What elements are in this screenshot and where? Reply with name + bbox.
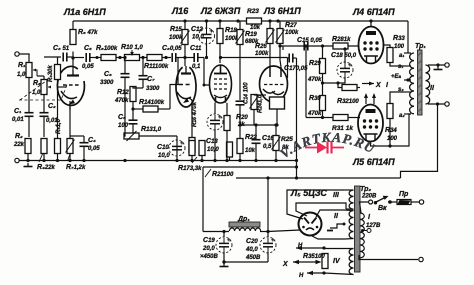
resistor R15 100k [181,30,190,45]
wire H bottom [307,272,324,274]
svg-text:C18 50,0: C18 50,0 [331,52,357,59]
svg-text:10,0: 10,0 [207,147,219,153]
svg-text:3300: 3300 [100,80,114,86]
wire 220V tap to switch [360,202,369,213]
svg-text:R21100: R21100 [212,171,234,178]
resistor R35 100 [322,254,328,269]
resistor R34 100 [387,104,393,119]
tube L2 6Zh3P [210,65,232,103]
capacitor C19 20.0 [216,237,232,253]
svg-text:C₉: C₉ [118,114,126,121]
resistor R33 100 [387,48,393,63]
svg-text:C₇: C₇ [147,76,155,83]
svg-text:470k: 470k [307,77,322,83]
resistor R26 100k [266,29,275,44]
svg-text:3300: 3300 [146,86,160,92]
svg-text:C₁: C₁ [14,108,22,115]
svg-text:Вк: Вк [378,205,387,212]
svg-text:10k: 10k [250,25,261,31]
terminal mains bottom [419,257,423,261]
svg-text:R16 470k: R16 470k [192,101,198,127]
heater tap symbol [327,224,344,231]
cathode resistor R24 1.0 [250,95,259,110]
svg-text:C12: C12 [191,26,203,33]
resistor R4 22k [41,139,47,154]
svg-text:127В: 127В [366,223,381,229]
svg-text:C11: C11 [190,45,202,52]
svg-text:1,0: 1,0 [32,90,41,96]
svg-text:R18: R18 [225,27,237,34]
capacitor C4 0.05 [80,143,89,147]
svg-text:R10 1,0: R10 1,0 [121,44,143,51]
wire R1 top [28,54,30,63]
wire signal row [73,57,84,59]
resistor R6 47k [70,30,76,45]
wire rectifier anode loop [287,190,346,239]
wire R14 to grid [170,85,179,110]
capacitor C15 0.05 [304,42,308,51]
svg-text:Тр₂: Тр₂ [360,186,371,193]
svg-text:a₁: a₁ [399,53,404,59]
resistor R30 470k [320,96,326,111]
tap 127V terminal [367,229,371,233]
resistor R19 680k [236,30,245,45]
svg-text:C₅: C₅ [84,45,92,52]
capacitor C1 0.01 [25,113,34,117]
svg-text:C15 0,05: C15 0,05 [297,37,323,44]
transformer Tr1 secondary coil [426,65,430,104]
svg-text:Л4 6П14П: Л4 6П14П [352,7,395,17]
svg-text:1,0: 1,0 [17,72,26,78]
wire B+ bus [73,20,408,22]
svg-text:R33: R33 [393,35,405,42]
svg-text:22k: 22k [13,142,25,148]
resistor R9 100k [101,55,116,61]
svg-text:Л3 6Н1П: Л3 6Н1П [263,6,301,16]
potentiometer R25 8k [272,136,281,151]
svg-text:R30: R30 [309,95,321,102]
grid wire L1a [58,86,67,88]
transformer Tr1 primary coil [410,53,414,114]
svg-text:450В: 450В [245,255,261,261]
svg-text:R131,0: R131,0 [141,126,162,133]
svg-text:R27: R27 [285,22,297,29]
cathode resistor R16 470k [189,138,195,153]
capacitor C20 40.0 [260,237,276,253]
svg-text:Л1а 6Н1П: Л1а 6Н1П [63,7,106,17]
capacitor C9 100 [129,120,138,124]
wire C18 to divider [323,77,346,83]
capacitor C16 0.5 [252,140,261,144]
capacitor C10 electrolytic [169,140,185,156]
svg-text:R₄22k: R₄22k [37,164,56,171]
svg-text:C₄: C₄ [88,137,96,144]
wire mains bottom [359,255,418,260]
resistor R23 10k (series in bus) [247,18,262,24]
svg-text:100: 100 [394,44,405,50]
svg-text:R₁: R₁ [18,62,26,69]
svg-text:R23: R23 [247,8,259,15]
resistor R11 100k [147,55,162,61]
capacitor C7 3300 [139,76,148,80]
svg-text:C13: C13 [206,138,218,145]
resistor R22 10k [237,139,243,154]
wire secondary bottom to terminal [428,103,445,105]
svg-text:R₂: R₂ [15,133,23,140]
svg-text:R₅30k: R₅30k [48,65,54,82]
watermark red diode [305,142,344,154]
svg-text:C₆: C₆ [104,71,112,78]
capacitor C18 50.0 electrolytic [337,62,353,78]
resistor R2 22k [25,139,31,154]
tube L5 rectifier 5Ts3S [299,213,322,236]
svg-text:10,0: 10,0 [158,153,170,159]
potentiometer R7 1.2k [66,139,75,154]
svg-text:C₈0,05: C₈0,05 [162,45,182,52]
svg-text:R₇1,2k: R₇1,2k [66,164,86,171]
svg-text:0,05: 0,05 [88,146,100,152]
junction dots on bus [183,19,279,22]
svg-text:470k: 470k [114,98,129,104]
resistor R5 30k vertical [55,65,61,80]
capacitor C6 3300 [121,74,130,78]
svg-text:100k: 100k [255,51,269,57]
resistor R12 470k [130,87,136,102]
svg-text:C10: C10 [157,144,169,151]
svg-text:100k: 100k [285,30,299,36]
svg-text:0,5: 0,5 [263,144,272,150]
svg-text:R20: R20 [236,114,248,121]
capacitor C13 electrolytic [207,114,223,130]
svg-text:Н: Н [298,243,303,249]
arrows up (crossover) [366,95,374,104]
svg-text:C₃ 51: C₃ 51 [53,45,70,52]
capacitor C12 electrolytic [199,28,215,44]
resistor R32 100 [342,85,357,91]
tube L3 lower electrode box [270,97,285,109]
wire anode L1a [72,52,74,71]
svg-text:Л5 6П14П: Л5 6П14П [352,157,395,167]
capacitor C5 0.05 [86,53,90,62]
potentiometer R13 1.0 [124,131,139,141]
svg-text:0,1: 0,1 [192,64,201,70]
wire feedback vertical A [296,58,298,178]
resistor R29 470k [320,59,326,74]
resistor R14 100k [143,106,158,112]
svg-text:×450В: ×450В [200,254,219,260]
terminal output top [445,63,449,67]
wire secondary top to terminal [428,64,445,66]
svg-text:s₁: s₁ [398,64,403,70]
ground symbol input [24,163,33,167]
wire X tap [293,261,318,263]
svg-text:40,0: 40,0 [245,247,258,253]
ground symbol C19 [220,263,229,267]
svg-text:R29: R29 [309,60,321,67]
svg-text:R173,3k: R173,3k [178,165,202,172]
resistor R27 100k [276,29,285,44]
svg-text:C14 100: C14 100 [244,82,250,104]
svg-text:Л16: Л16 [171,6,189,16]
wire C8 to grid [177,58,179,85]
svg-text:Н: Н [299,273,304,279]
svg-text:s₂: s₂ [398,87,404,93]
capacitor C14 100 [236,101,245,105]
terminal input top [15,52,19,56]
svg-text:100: 100 [387,136,398,142]
potentiometer R1 1.0 [26,63,32,78]
switch Vk [369,200,373,204]
svg-text:100: 100 [118,123,129,129]
capacitor C3 51 [63,53,67,62]
svg-text:R12: R12 [117,89,129,96]
resistor R18 100k [217,29,223,44]
terminal mains top [419,200,423,204]
potentiometer R3 1.0 [41,80,47,95]
svg-text:Пр: Пр [399,191,409,198]
capacitor C2 0.01 [40,113,49,117]
svg-text:Л2 6ЖЗП: Л2 6ЖЗП [200,6,241,16]
resistor R31 1k [333,115,348,121]
svg-text:R35100: R35100 [303,253,325,260]
wire input to R1 [19,54,29,55]
svg-text:R15: R15 [170,26,182,33]
resistor R17 3.3k [189,141,195,156]
svg-text:100k: 100k [169,35,183,41]
svg-text:R₆ 47k: R₆ 47k [78,29,98,36]
resistor R20 (cathode) [224,116,230,131]
wire C19-C20 common [224,261,268,263]
wire B+ feed to filter [267,178,269,232]
svg-text:470k: 470k [307,111,322,117]
wire L5 anode to primary bottom [371,114,412,146]
svg-text:220В: 220В [361,194,377,200]
svg-text:R11100k: R11100k [144,63,169,70]
wire feedback vertical B [305,46,307,118]
svg-text:R32100: R32100 [337,98,359,105]
terminal input bottom [15,158,19,162]
svg-text:R241,0: R241,0 [258,94,264,113]
svg-text:Тр₁: Тр₁ [415,43,426,50]
svg-text:C₂: C₂ [48,103,56,110]
node anode junction [71,56,74,59]
transformer Tr1 core [418,50,423,115]
arrow X I [362,83,374,85]
potentiometer R10 1.0 [125,55,140,61]
tube L5 6P14P (output) [358,105,383,142]
resistor R21s small [199,141,205,156]
terminal output bottom [445,102,449,106]
capacitor C8 0.05 [172,53,176,62]
heater taps H X H [322,246,325,249]
svg-text:C20: C20 [246,238,258,245]
wire L4 anode to bus [370,21,372,27]
svg-text:C19: C19 [203,237,215,244]
svg-text:0,01: 0,01 [12,117,24,123]
cathode wire L1a [69,101,71,110]
tube L4 6P14P [359,27,384,64]
svg-text:0,05: 0,05 [82,64,94,70]
tube L1b (half triode) [176,66,196,107]
svg-text:10k: 10k [245,148,256,154]
resistor R21 100 (to heater line) [227,142,233,157]
svg-text:R₉100k: R₉100k [96,45,118,52]
resistor R28 1k [333,43,348,49]
wire feedback box [203,104,438,232]
wire rectifier cathode [268,230,300,232]
svg-text:20,0: 20,0 [202,246,215,252]
wire filter line [203,231,229,233]
svg-text:R19: R19 [245,31,257,38]
ground symbol secondary [434,66,443,70]
svg-text:R281k: R281k [332,36,351,43]
svg-text:R14100k: R14100k [139,99,165,106]
svg-text:R26: R26 [255,43,267,50]
svg-text:R34: R34 [385,127,397,134]
resistor R8 1.0 (vertical label) [55,139,61,154]
transformer Tr2 core [355,186,361,272]
tube L3 6N1P [260,66,288,102]
wire a1 tap [404,52,411,54]
svg-text:10,0: 10,0 [192,35,204,41]
wire ground bus [19,160,297,162]
dashed gang line [19,81,67,100]
tube L1a (half triode) [57,66,84,105]
capacitor C11 0.1 [194,53,198,62]
